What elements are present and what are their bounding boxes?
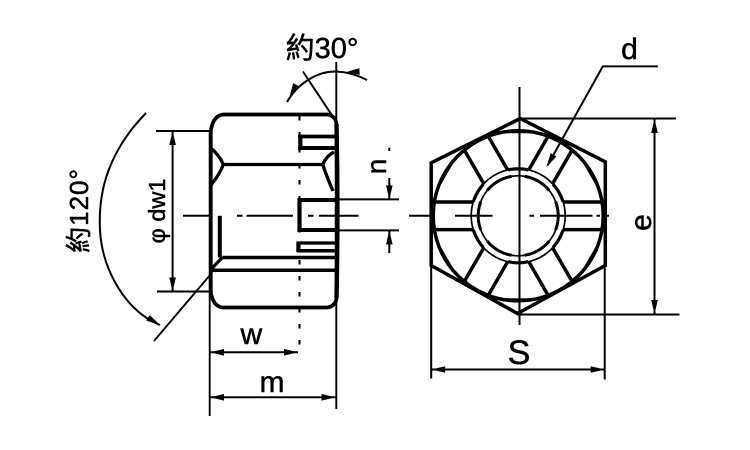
m/w left extension line	[209, 131, 211, 416]
castellation slot bottom (side view)	[297, 241, 337, 244]
corner chamfer chord at 210°	[439, 247, 452, 269]
svg-text:d: d	[621, 33, 638, 66]
svg-text:約120°: 約120°	[64, 168, 94, 253]
svg-text:m: m	[260, 366, 285, 399]
castellation slot top (side view)	[298, 135, 337, 139]
bearing step line B	[211, 269, 338, 273]
vertical center line (face view)	[519, 87, 521, 325]
crown right edge (thick)	[334, 124, 339, 298]
svg-text:n: n	[361, 159, 392, 175]
svg-text:e: e	[625, 214, 658, 231]
dimension n arrow tail speck	[388, 148, 390, 151]
hex face divider line (top)	[223, 163, 322, 166]
corner chamfer chord at 270°	[506, 298, 531, 301]
svg-text:約30°: 約30°	[286, 32, 359, 65]
angle 約30° arc	[287, 71, 367, 102]
angle 約120° arc arrow	[146, 315, 160, 325]
castellation slot middle (side view)	[298, 198, 337, 202]
chamfer circle	[563, 202, 565, 231]
corner chamfer chord at 150°	[439, 163, 452, 185]
crown circle	[433, 131, 603, 301]
angle 約30° arc arrows	[290, 83, 300, 97]
svg-text:φ dw1: φ dw1	[144, 179, 170, 244]
dimension e extension lines	[520, 118, 676, 120]
svg-text:w: w	[239, 318, 262, 351]
bearing step diagonal	[211, 258, 223, 270]
hexagon outline	[431, 119, 605, 314]
svg-text:S: S	[508, 334, 531, 372]
castellation slot at 60° (face view)	[553, 151, 572, 184]
castellation slot at 240° (face view)	[465, 248, 484, 281]
corner chamfer chord at 330°	[585, 247, 598, 269]
dimension S extension lines	[430, 266, 432, 379]
thread hole circle	[556, 202, 559, 230]
castellation slot at 180° (face view)	[431, 200, 473, 204]
angle 約30° slant line	[303, 72, 336, 122]
dimension w line with arrows	[210, 351, 298, 353]
dimension m line with arrows	[210, 396, 336, 398]
corner chamfer chord at 30°	[585, 163, 598, 185]
m right extension / 30deg vertical line	[335, 62, 337, 409]
dimension φdw1 extension line top	[156, 130, 209, 132]
w extension dotted line	[299, 116, 301, 352]
nut body outline (side view)	[211, 115, 337, 308]
castellation slot at 300° (face view)	[529, 262, 548, 295]
horizontal center line (face view)	[455, 215, 609, 217]
dimension e line with arrows	[654, 119, 656, 314]
dimension n arrows	[388, 178, 390, 199]
dimension S line with arrows	[431, 369, 605, 371]
leader line d with arrow	[548, 66, 658, 165]
castellation slot at 0° (face view)	[563, 228, 605, 232]
angle 約120° arc	[100, 113, 160, 325]
dimension φdw1 extension line bottom	[157, 291, 209, 293]
corner chamfer chord at 90°	[506, 130, 531, 133]
bearing step vertical	[218, 216, 222, 258]
dimension φdw1 line with arrows	[172, 131, 174, 292]
bearing step line A	[222, 256, 338, 260]
left chamfer waist arcs	[211, 148, 224, 185]
axis center line (left view)	[183, 215, 430, 217]
castellation slot at 120° (face view)	[489, 137, 508, 170]
dimension n extension lines	[337, 198, 399, 200]
angle 約120° slant line	[154, 276, 209, 341]
right chamfer waist arcs	[323, 152, 334, 191]
